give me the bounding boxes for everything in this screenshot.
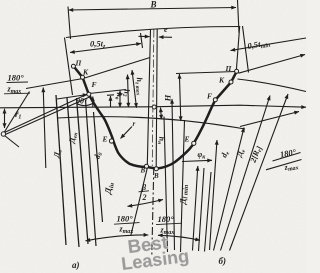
vertical line with up arrow <box>43 88 46 169</box>
beta line <box>131 166 148 236</box>
right fan extra line 2 <box>199 168 205 251</box>
node origin left <box>1 132 5 136</box>
radius line to F lower <box>5 97 90 135</box>
slot wall right <box>156 29 157 168</box>
F reference line <box>89 90 126 94</box>
extension tick right of B <box>238 0 240 33</box>
extension tick left of B <box>68 7 71 40</box>
dimension arc left <box>86 235 149 241</box>
small arrow at F base <box>92 97 94 108</box>
short ray from origin node <box>5 136 20 148</box>
K reference line right part <box>83 58 150 79</box>
node P right <box>235 69 239 73</box>
H reference line <box>176 72 236 74</box>
tick for 0,5tz <box>141 33 143 48</box>
fraction 180/zmax far right <box>273 147 301 174</box>
right fan extra line 1 <box>193 166 198 251</box>
fraction 180/zmax bottom-left <box>114 214 140 236</box>
fan line R4 <box>230 94 289 251</box>
dimension 0,5tz line <box>70 44 141 53</box>
dimension H line <box>179 74 180 121</box>
node K left <box>81 75 85 79</box>
r arrow to fillet <box>121 127 133 139</box>
right fan extra line 3 <box>205 172 212 252</box>
dimension hn <box>161 108 162 120</box>
dimension B top line <box>69 8 237 11</box>
fan line R3 2Re <box>221 96 271 251</box>
node F left <box>87 92 91 96</box>
dimension arc right <box>158 235 200 240</box>
node V left <box>145 164 149 168</box>
slot centerline <box>152 30 154 167</box>
fan line F1 <box>56 95 66 245</box>
fan line R2 De <box>214 128 245 251</box>
watermark Best Leasing <box>118 229 190 273</box>
node on slot wall <box>152 105 156 109</box>
dimension hv line <box>119 91 121 108</box>
tooth profile thick curve <box>73 66 236 169</box>
dimension h2 line <box>128 75 129 108</box>
fan line F4 <box>86 100 97 246</box>
fan line F2 <box>67 98 79 247</box>
root line b <box>240 112 299 127</box>
right flank extension <box>243 26 249 73</box>
arc A tip of b <box>238 79 307 92</box>
dimension hzmax line <box>132 70 137 108</box>
fraction 180/zmax top-left <box>4 73 30 96</box>
rack top edge <box>66 27 240 38</box>
left flank extension <box>65 38 73 96</box>
beta/2 curved arrow <box>128 200 164 207</box>
wedge line from origin node <box>4 92 30 134</box>
fan line R1 de <box>210 140 218 250</box>
arrow to F node <box>57 95 88 100</box>
right flank <box>236 26 239 71</box>
slot wall left <box>147 29 150 165</box>
node E left <box>109 139 113 143</box>
dimension 0,5tmin line <box>231 38 307 51</box>
node P left <box>71 64 75 68</box>
tip circle arc <box>57 117 245 129</box>
dimension r1 <box>4 109 6 128</box>
90 degree arc <box>77 103 94 106</box>
node K right <box>229 80 233 84</box>
fan line F5 <box>94 112 103 222</box>
node E right <box>192 141 196 145</box>
Dlmin line <box>181 120 185 252</box>
node F right <box>213 98 217 102</box>
beta fraction bar <box>139 191 150 192</box>
K reference line left part <box>26 79 83 89</box>
vertical line V2 <box>172 99 175 250</box>
node V right <box>154 167 158 171</box>
phi k arrow <box>182 160 212 161</box>
fan line F3 <box>77 98 89 244</box>
tick mid <box>107 94 114 97</box>
small arrow mid <box>110 96 112 108</box>
vertical line V1 <box>164 117 168 253</box>
dimension e arrow left <box>139 35 150 37</box>
paper grain overlay <box>0 0 1 1</box>
dimension e arrow right <box>159 36 172 38</box>
radius line to F upper <box>5 94 88 132</box>
180 right wedge line <box>266 160 302 170</box>
tmin reference line <box>239 55 306 74</box>
fraction 180/zmax bottom-center-right <box>156 214 182 236</box>
centerline below <box>152 167 154 256</box>
pitch line <box>0 105 306 108</box>
